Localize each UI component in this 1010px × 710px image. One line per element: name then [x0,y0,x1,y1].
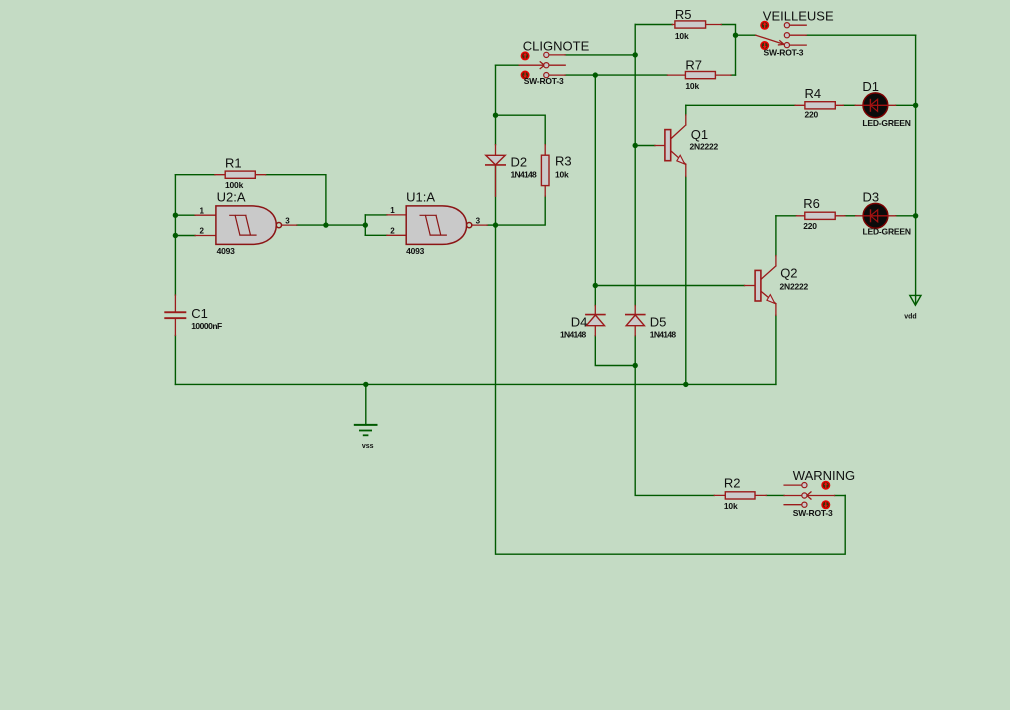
wire Q2 collector column [775,216,777,256]
junction U1 output node [493,222,498,227]
svg-text:SW-ROT-3: SW-ROT-3 [793,508,833,518]
wire R1 right to U2 output [266,175,326,225]
wire U2 pin2 [175,235,195,237]
svg-text:Q1: Q1 [691,127,708,142]
svg-text:vdd: vdd [904,314,916,321]
wire R3 top branch [496,115,546,144]
switch SW-ROT-3 CLIGNOTE contacts [544,52,549,77]
wire D4 bottom link [595,336,635,366]
wire left column [174,175,176,295]
power vdd arrow [910,295,921,305]
wire U2 pin stubs [195,215,216,235]
junction CLIGNOTE top [633,52,638,57]
switch SW-ROT-3 VEILLEUSE contacts [784,23,789,48]
svg-text:2N2222: 2N2222 [780,282,809,292]
svg-text:1: 1 [390,206,395,215]
wire U2 output row [297,224,366,226]
junction D4-D5 link [633,363,638,368]
svg-text:4093: 4093 [217,246,236,256]
wire R1 left row [175,174,215,176]
button CLIGNOTE down [521,71,530,80]
svg-text:100k: 100k [225,180,244,190]
button VEILLEUSE down [760,41,769,50]
wire D2 column upper [495,65,497,144]
wire R2 leads [714,494,766,496]
wire D5 bottom to R2 [635,336,714,496]
svg-text:R3: R3 [555,154,572,169]
button WARNING up [821,481,830,490]
wire Q2 emitter lead [761,291,776,315]
junction Q2 base [593,283,598,288]
wire R1 leads [215,174,266,176]
button CLIGNOTE up [521,51,530,60]
wire U1 output to node [487,224,495,226]
transistor Q1 [665,130,671,161]
svg-text:D3: D3 [863,189,880,204]
wire WARNING contact stubs [784,485,802,505]
junction R1 feedback [323,222,328,227]
svg-text:R5: R5 [675,7,692,22]
svg-text:C1: C1 [191,306,208,321]
wire D1 leads [855,104,895,106]
wire Q1 emitter column [685,177,687,385]
resistor R6 [805,212,835,219]
wire ground stub [365,384,367,425]
junction D2 top node [493,113,498,118]
svg-text:3: 3 [476,216,481,225]
RED-LEADS [175,25,895,505]
diode D5 [626,315,644,326]
wire Q1 collector top [685,105,687,115]
svg-text:1N4148: 1N4148 [511,169,538,179]
button WARNING down [821,500,830,509]
svg-text:10k: 10k [555,169,569,179]
svg-text:3: 3 [285,217,290,226]
junction CLIGNOTE bottom [593,72,598,77]
wire R5 left row [635,24,672,26]
wire D2 leads [495,145,497,197]
junction U1 input [363,222,368,227]
wire VEILLEUSE pole [736,34,756,36]
junction R5-R7 [733,33,738,38]
wire R3 bottom branch [496,196,546,225]
op-amp U2 gate body [216,206,282,245]
svg-text:10k: 10k [724,501,738,511]
svg-text:SW-ROT-3: SW-ROT-3 [524,76,564,86]
wire R5 leads [672,24,721,26]
wire D4 leads [594,306,596,336]
wire right vdd rail [915,35,917,295]
svg-text:WARNING: WARNING [793,468,855,483]
wire D4 column [594,75,596,305]
wire CLIGNOTE top contact run [565,54,635,56]
svg-text:R2: R2 [724,475,741,490]
wire C1 leads [174,295,176,336]
svg-text:D1: D1 [862,79,879,94]
LED D3 [863,203,888,228]
wire C1 bottom to rail [174,336,176,385]
wire Q2 base lead [745,285,756,287]
svg-text:10k: 10k [685,81,699,91]
svg-text:VEILLEUSE: VEILLEUSE [763,9,834,24]
svg-text:U2:A: U2:A [217,189,246,204]
wire Q1 collector lead [671,115,686,139]
junction U2 pin2 [173,233,178,238]
wire R5 right corner [721,25,735,76]
svg-text:D2: D2 [511,155,528,170]
diode D4 [586,315,604,326]
junction Q1 base [633,143,638,148]
wire U2 output stub [282,224,297,226]
button VEILLEUSE up [760,21,769,30]
wire node to bottom run [496,225,846,554]
wire R6 leads [796,215,845,217]
wire Q1 emitter lead [671,151,686,177]
wire CLIGNOTE pole stub [496,64,520,66]
wire VEILLEUSE selector [756,35,784,45]
wire CLIGNOTE bottom to R7 [565,74,667,76]
junction Q1 emitter rail [683,382,688,387]
wire Q2 base [595,285,744,287]
svg-text:220: 220 [803,221,817,231]
wire WARNING selector [807,492,835,499]
svg-text:10k: 10k [675,31,689,41]
resistor R2 [725,492,755,499]
svg-text:2: 2 [200,227,205,236]
wire Q2 emitter column [775,315,777,384]
svg-text:1N4148: 1N4148 [560,329,587,339]
switch SW-ROT-3 WARNING contacts [802,483,807,508]
wire D3 right [896,215,916,217]
resistor R3 [541,155,549,185]
wire Q1 base [635,145,655,147]
wire R7 right corner [731,74,736,76]
svg-text:CLIGNOTE: CLIGNOTE [523,38,590,53]
wire ground rail [175,383,776,385]
wire D3 leads [856,215,896,217]
wire U1 pin1 [365,214,387,216]
WIRES-GREEN [175,25,915,555]
svg-text:1N4148: 1N4148 [650,329,677,339]
svg-text:2: 2 [390,226,395,235]
wire WARNING pole corner [835,495,846,497]
LED D1 [863,93,888,118]
wire VEILLEUSE contact stubs [790,25,807,45]
resistor R4 [805,102,835,109]
junction ground stub [363,382,368,387]
wire D2 column lower [495,165,497,225]
transistor Q2 [755,270,761,301]
svg-text:220: 220 [805,110,819,120]
svg-text:R7: R7 [685,57,702,72]
svg-text:10000nF: 10000nF [191,321,222,331]
wire R7 leads [667,74,731,76]
wire R4 to D1 [843,104,855,106]
svg-text:vss: vss [362,443,374,450]
wire Q2 collector to R6 [776,215,797,217]
wire VEILLEUSE middle run [806,34,915,36]
wire R5 to D5 column [634,25,636,306]
svg-text:R6: R6 [803,196,820,211]
junction D3 anode [913,213,918,218]
resistor R5 [675,21,706,28]
wire U1 pin stubs [387,215,406,235]
op-amp U1 gate body [406,206,472,245]
ground vss [355,425,377,435]
svg-text:D4: D4 [571,315,588,330]
capacitor C1 [164,311,186,319]
resistor R7 [685,72,715,79]
wire U1 pin2 [365,234,387,236]
wire D1 right [896,104,916,106]
wire Q1 base lead [655,145,665,147]
svg-text:Q2: Q2 [780,266,797,281]
diode D2 [486,155,505,165]
wire CLIGNOTE selector [519,62,544,69]
svg-text:1: 1 [200,206,205,215]
svg-text:4093: 4093 [406,246,425,256]
wire Q1 collector to R4 [686,104,795,106]
wire R3 leads [544,145,546,197]
resistor R1 [225,171,255,178]
junction D1 anode [913,103,918,108]
wire D5 leads [634,306,636,336]
wire U1 input column [364,215,366,235]
wire R2 right [766,494,784,496]
wire CLIGNOTE contact stubs [549,55,565,75]
wire U2 pin1 [175,214,195,216]
wire Q2 collector lead [761,256,776,280]
svg-text:LED-GREEN: LED-GREEN [862,118,910,128]
junction U2 pin1 [173,213,178,218]
svg-text:R4: R4 [805,86,822,101]
svg-text:LED-GREEN: LED-GREEN [863,227,911,237]
wire U1 output stub [472,224,487,226]
svg-text:D5: D5 [650,315,667,330]
wire R6 to D3 [845,215,856,217]
svg-text:R1: R1 [225,155,242,170]
wire R4 leads [795,104,843,106]
svg-text:SW-ROT-3: SW-ROT-3 [764,48,804,58]
svg-text:2N2222: 2N2222 [690,141,719,151]
svg-text:U1:A: U1:A [406,189,435,204]
